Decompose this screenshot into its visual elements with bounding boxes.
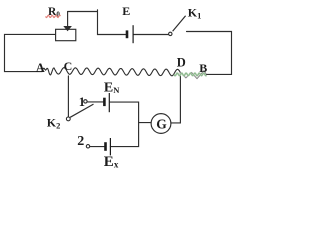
wire: battery E to switch K1 [134, 34, 169, 36]
switch K2 blade [70, 104, 93, 117]
svg-text:D: D [177, 55, 186, 69]
switch K2 pivot [66, 117, 70, 121]
svg-text:2: 2 [77, 134, 84, 149]
wire: junction to G left [139, 122, 152, 124]
contact 2 [86, 145, 89, 148]
wire: box row, left vertical, A row [5, 34, 56, 71]
svg-text:C: C [64, 59, 73, 73]
wire: G right to D tap and up to D [171, 73, 181, 123]
rheostat wiper arrow [65, 12, 71, 31]
red squiggle under R0 [46, 15, 61, 17]
wire: rheostat wiper to battery branch (top) [68, 10, 126, 35]
svg-text:1: 1 [79, 95, 85, 109]
green squiggle over D-B [174, 73, 207, 76]
slide wire D to B (gray zigzag) [180, 71, 206, 79]
switch K1 contact [169, 32, 172, 35]
contact 1 [84, 100, 87, 103]
wire: contact 2 to EX battery [90, 146, 105, 148]
svg-text:B: B [199, 61, 207, 75]
svg-text:E: E [122, 4, 130, 18]
wire: EN to junction vertical to EX [110, 102, 138, 147]
svg-text:A: A [36, 61, 45, 75]
wire: C tap down to K2 pivot [67, 76, 69, 117]
battery EN (standard cell) [104, 93, 109, 112]
switch K1 blade [173, 16, 186, 31]
slide wire A to D [42, 68, 180, 76]
battery E [127, 25, 133, 43]
wire: after K1 right and down to B row [187, 32, 232, 75]
wire: contact 1 to EN battery [87, 101, 103, 103]
battery EX (unknown emf) [106, 138, 111, 155]
svg-text:G: G [156, 116, 167, 131]
galvanometer G circle [151, 114, 171, 134]
resistor R0 (rheostat box) [56, 29, 76, 40]
